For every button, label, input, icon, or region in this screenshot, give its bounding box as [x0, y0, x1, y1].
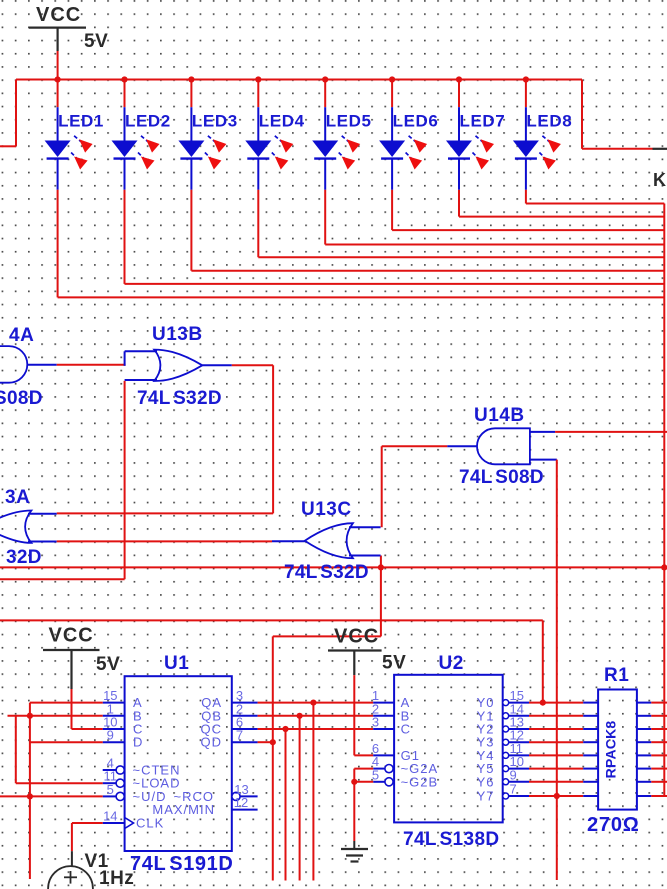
svg-text:VCC: VCC	[36, 4, 81, 26]
LED LED3	[178, 80, 226, 190]
pin 9 (Y6) of U2	[477, 767, 529, 789]
junction Y0 net / Y0 pin line	[540, 700, 546, 706]
svg-text:5V: 5V	[96, 654, 120, 675]
junction QB branch	[297, 713, 303, 719]
pin 3 (C) of U2	[372, 715, 411, 737]
svg-text:LED6: LED6	[393, 112, 439, 131]
wire R1 output 3 to right edge	[651, 728, 667, 730]
svg-text:LED3: LED3	[192, 112, 238, 131]
pin stub U14A output	[27, 364, 56, 366]
svg-text:74LS08D: 74LS08D	[459, 467, 544, 488]
and-gate U14A (74LS08D, partially visible at left edge)	[0, 346, 27, 383]
wire U13B output to U13A input A	[57, 365, 273, 513]
wire QD to QD-net vertical	[258, 741, 273, 743]
pin 2 (QB) of U1	[201, 701, 257, 723]
wire CLK from V1	[72, 823, 103, 851]
wire Y6 to R1	[529, 781, 583, 783]
svg-text:Y7: Y7	[477, 789, 495, 804]
svg-text:VCC: VCC	[334, 626, 379, 648]
wire U14B input A to right edge	[555, 431, 667, 433]
svg-text:7: 7	[236, 728, 243, 743]
junction preset net / pin B line	[27, 713, 33, 719]
wire QA to U2 pin A	[258, 702, 374, 704]
pin 10 (Y5) of U2	[477, 754, 529, 776]
junction preset net / U/~D line	[27, 793, 33, 799]
pin R1.4 left stub	[583, 741, 598, 743]
wire QB to U2 pin B	[258, 715, 374, 717]
wire U1 pin A to preset net vertical	[30, 702, 103, 704]
pin 7 (Y7) of U2	[477, 782, 529, 804]
wire ~G2A to ground net	[354, 769, 373, 782]
pin 10 (C) of U1	[103, 715, 144, 737]
wire LED1 cathode to right-edge bus	[58, 190, 665, 298]
pin stub U13B output	[202, 364, 232, 366]
wire VCC to U2 pin G1	[354, 675, 373, 755]
svg-text:D: D	[133, 735, 143, 750]
wire LED8 cathode to right-edge bus	[526, 190, 664, 204]
svg-text:QD: QD	[201, 735, 223, 750]
wire R1 output 8 to right edge	[651, 795, 667, 797]
junction cathode bus / QD net line	[661, 564, 667, 570]
pin 5 (~G2B) of U2	[372, 767, 438, 789]
wire U14B input B down to Y7 net	[556, 460, 558, 880]
svg-text:K: K	[653, 170, 666, 190]
power VCC symbol above U1	[43, 625, 120, 690]
svg-text:~G2B: ~G2B	[401, 774, 439, 789]
svg-text:VCC: VCC	[49, 625, 94, 647]
LED LED7	[446, 80, 494, 190]
pin 14 (CLK) of U1	[103, 809, 165, 831]
pin stub U13C input B	[349, 555, 381, 557]
pin 4 (~G2A) of U2	[372, 754, 438, 776]
svg-text:5: 5	[107, 782, 114, 797]
wire R1 output 7 to right edge	[651, 781, 667, 783]
svg-text:LED1: LED1	[58, 112, 104, 131]
pin R1.12 right stub	[637, 754, 651, 756]
svg-text:S08D: S08D	[0, 388, 43, 409]
wire QC branch down (hanging)	[285, 729, 287, 881]
pin R1.3 left stub	[583, 728, 598, 730]
svg-text:MAX/MIN: MAX/MIN	[152, 802, 215, 817]
LED LED2	[112, 80, 160, 190]
wire QA branch down (hanging)	[312, 703, 314, 881]
node K off-page connector	[653, 149, 667, 190]
svg-text:9: 9	[107, 728, 114, 743]
svg-text:7: 7	[510, 782, 517, 797]
svg-text:5V: 5V	[382, 653, 406, 674]
junction anode bus / LED2	[121, 76, 127, 82]
LED LED5	[312, 80, 360, 190]
pin stub U13A input B	[28, 541, 57, 543]
pin 5 (~U/D) of U1	[103, 782, 167, 804]
junction anode bus / LED4	[255, 76, 261, 82]
wire R1 output 4 to right edge	[651, 741, 667, 743]
pin 7 (QD) of U1	[201, 728, 258, 750]
wire ~G2B to ground	[354, 782, 373, 841]
svg-text:270Ω: 270Ω	[587, 814, 640, 836]
wire Y2 to R1	[529, 728, 583, 730]
wire QD net: U13C input B down, across, down to QD	[273, 556, 381, 881]
wire Y3 to R1	[529, 741, 583, 743]
wire right-edge cathode bus vertical	[663, 204, 665, 797]
junction QD vertical / QD pin line	[270, 739, 276, 745]
pin R1.14 right stub	[637, 728, 651, 730]
pin R1.16 right stub	[637, 702, 651, 704]
pin 6 (QC) of U1	[201, 715, 258, 737]
pin 1 (B) of U1	[103, 701, 143, 723]
or-gate U13B (74LS32D)	[154, 350, 202, 381]
pin R1.5 left stub	[583, 754, 598, 756]
LED LED8	[513, 80, 561, 190]
svg-text:74LS191D: 74LS191D	[130, 853, 233, 875]
svg-text:74LS32D: 74LS32D	[137, 388, 222, 409]
wire LED3 cathode to right-edge bus	[191, 190, 664, 271]
pin R1.10 right stub	[637, 781, 651, 783]
wire branch from bus to node K	[582, 80, 653, 149]
wire LED2 cathode to right-edge bus	[125, 190, 665, 284]
wire R1 output 5 to right edge	[651, 754, 667, 756]
pin R1.15 right stub	[637, 715, 651, 717]
wire Y0 to R1	[529, 702, 583, 704]
svg-text:LED2: LED2	[125, 112, 171, 131]
LED LED4	[245, 80, 293, 190]
IC U2 74LS138D decoder body	[394, 675, 503, 823]
junction anode bus / LED6	[389, 76, 395, 82]
wire VCC to U1 pin C	[72, 689, 103, 729]
wire U14A output to U13B input A	[57, 364, 126, 366]
svg-text:12: 12	[234, 795, 248, 810]
wire U13B input B down to left-edge net	[0, 381, 125, 579]
wire R1 output 2 to right edge	[651, 715, 667, 717]
wire pin B to ~LOAD	[16, 716, 103, 783]
wire U14B output to U13C input A	[382, 446, 448, 527]
wire U13C output to U13A input B	[57, 540, 272, 542]
pin stub U13B input B	[125, 379, 157, 381]
svg-text:RPACK8: RPACK8	[603, 721, 619, 779]
svg-text:LED5: LED5	[326, 112, 372, 131]
wire left branch of anode bus exiting left edge	[0, 80, 16, 147]
or-gate U13C (74LS32D, mirrored: points left)	[305, 523, 353, 558]
source V1 1Hz clock	[48, 851, 93, 889]
svg-text:U1: U1	[164, 653, 189, 674]
svg-text:9: 9	[510, 767, 517, 782]
pin 14 (Y1) of U2	[477, 701, 529, 723]
pin stub U13A input A	[28, 513, 57, 515]
svg-text:U14B: U14B	[474, 405, 525, 426]
pin 3 (QA) of U1	[201, 688, 257, 710]
wire LED6 cathode to right-edge bus	[392, 190, 664, 230]
svg-text:R1: R1	[604, 665, 629, 686]
pin stub U14B input A	[530, 431, 555, 433]
pin 12 (Y3) of U2	[477, 728, 529, 750]
svg-text:C: C	[401, 722, 411, 737]
svg-text:3: 3	[372, 715, 379, 730]
wire LED7 cathode to right-edge bus	[459, 190, 664, 217]
wire LED4 cathode to right-edge bus	[258, 190, 664, 257]
LED LED6	[379, 80, 427, 190]
pin R1.6 left stub	[583, 768, 598, 770]
power VCC symbol above U2	[328, 626, 406, 676]
pin 4 (~CTEN) of U1	[103, 756, 181, 778]
pin stub U14B input B	[530, 459, 557, 461]
pin 15 (Y0) of U2	[477, 688, 529, 710]
pin 13 (Y2) of U2	[477, 715, 529, 737]
power VCC symbol (top-left)	[29, 4, 108, 52]
svg-text:32D: 32D	[6, 547, 42, 568]
svg-text:U13C: U13C	[301, 499, 352, 520]
pin R1.7 left stub	[583, 781, 598, 783]
pin R1.13 right stub	[637, 741, 651, 743]
pin R1.9 right stub	[637, 795, 651, 797]
svg-text:U13B: U13B	[152, 324, 203, 345]
svg-text:LED4: LED4	[259, 112, 305, 131]
pin stub U13C output	[272, 540, 305, 542]
wire U1 pin D line	[30, 741, 103, 743]
junction on anode bus at VCC/LED1	[55, 76, 61, 82]
resistor pack R1 body	[598, 690, 637, 810]
svg-text:LED8: LED8	[526, 112, 572, 131]
pin 13 (~RCO) of U1	[174, 782, 258, 804]
wire Y7 to R1	[529, 795, 583, 797]
junction U14B input B / Y7 line	[554, 793, 560, 799]
pin R1.1 left stub	[583, 702, 598, 704]
junction anode bus / LED8	[523, 76, 529, 82]
wire Y1 to R1	[529, 715, 583, 717]
pin 1 (A) of U2	[372, 688, 410, 710]
svg-text:LED7: LED7	[460, 112, 506, 131]
ground symbol	[341, 841, 368, 862]
LED LED1	[45, 80, 93, 190]
wire LED anode bus	[16, 79, 582, 81]
svg-text:5V: 5V	[84, 31, 108, 52]
junction anode bus / LED7	[456, 76, 462, 82]
svg-text:3A: 3A	[5, 487, 30, 508]
wire Y5 to R1	[529, 768, 583, 770]
pin stub U14B output	[447, 445, 477, 447]
pin 6 (G1) of U2	[372, 741, 420, 763]
pin R1.11 right stub	[637, 768, 651, 770]
pin R1.2 left stub	[583, 715, 598, 717]
wire QB branch down (hanging)	[299, 716, 301, 881]
pin 9 (D) of U1	[103, 728, 144, 750]
junction anode bus / LED3	[188, 76, 194, 82]
pin 11 (Y4) of U2	[477, 741, 529, 763]
IC U1 74LS191D counter body	[125, 676, 232, 851]
wire preset net vertical (hanging below)	[29, 703, 31, 879]
svg-text:14: 14	[103, 809, 117, 824]
pin 12 (MAX/MIN) of U1	[152, 795, 257, 817]
wire U1 pin U/~D line to left edge	[0, 795, 103, 797]
pin 2 (B) of U2	[372, 701, 410, 723]
wire full-width net at y=567	[0, 566, 664, 568]
and-gate U14B (74LS08D, mirrored: points left)	[477, 428, 530, 464]
wire R1 output 1 to right edge	[651, 702, 667, 704]
svg-text:74LS138D: 74LS138D	[403, 829, 500, 850]
pin stub U13C input A	[349, 526, 381, 528]
junction ground net	[351, 779, 357, 785]
wire VCC stub to anode bus	[57, 51, 59, 81]
wire Y4 to R1	[529, 754, 583, 756]
wire R1 output 6 to right edge	[651, 768, 667, 770]
pin stub U13B input A (bent)	[125, 351, 157, 366]
wire QC to U2 pin C	[258, 728, 374, 730]
svg-text:74LS32D: 74LS32D	[284, 562, 369, 583]
pin 11 (~LOAD) of U1	[103, 769, 181, 791]
wire Y0 net long horizontal at y=620	[0, 620, 543, 702]
junction QD net / full-width net at y=567	[378, 564, 384, 570]
pin 15 (A) of U1	[103, 688, 143, 710]
pin R1.8 left stub	[583, 795, 598, 797]
svg-text:CLK: CLK	[136, 816, 164, 831]
junction QC branch	[282, 726, 288, 732]
junction QA branch	[310, 700, 316, 706]
svg-text:4A: 4A	[9, 325, 34, 346]
svg-text:U2: U2	[439, 653, 464, 674]
wire LED5 cathode to right-edge bus	[325, 190, 664, 245]
or-gate U13A (74LS32D, mirrored, partially visible at left edge)	[0, 511, 31, 543]
junction anode bus / LED5	[322, 76, 328, 82]
wire U1 pin B line	[8, 715, 103, 717]
svg-text:Y6: Y6	[477, 774, 495, 789]
svg-text:1Hz: 1Hz	[99, 868, 134, 889]
